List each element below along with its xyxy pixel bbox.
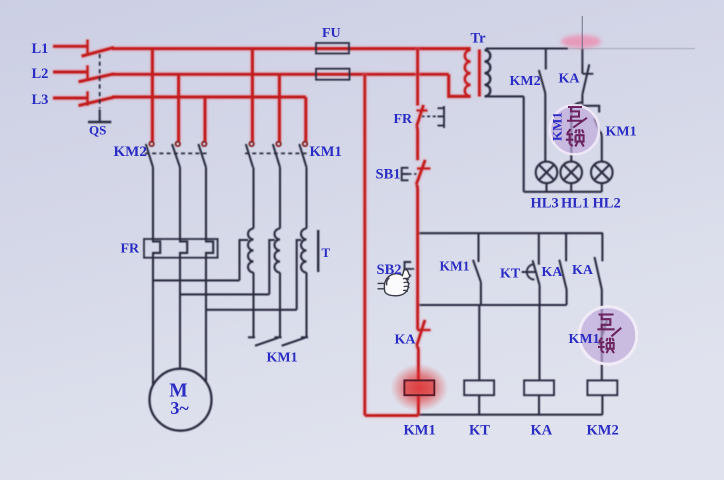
tap 1 riser	[240, 240, 249, 280]
KM1 star contact tick 2	[275, 336, 282, 338]
svg-text:KM1: KM1	[550, 112, 565, 141]
wire tap1 to lead U	[153, 279, 240, 281]
svg-text:KT: KT	[469, 423, 490, 439]
SB1 button cap	[402, 168, 409, 181]
QS pole L1 tick	[86, 40, 89, 55]
wire tap2 to lead V	[180, 293, 269, 295]
rung bus A	[418, 232, 603, 234]
control rail left from L2	[363, 74, 366, 415]
QS blade L2	[79, 74, 115, 82]
KT lower wire	[539, 285, 541, 305]
svg-text:HL2: HL2	[593, 196, 621, 212]
wire drop L2 to KM2 pole 2	[177, 74, 180, 141]
contactor KM1 main blade 2	[273, 144, 280, 167]
coil KA body	[524, 380, 554, 395]
wire KM2 pole2 to FR	[179, 167, 181, 239]
artifact faint bus line	[568, 48, 695, 50]
svg-text:T: T	[322, 245, 331, 260]
wire KM1 pole3 to coil T3	[305, 167, 307, 228]
KT blade	[533, 260, 540, 285]
FR NC contact tick	[417, 109, 428, 111]
svg-text:KM1: KM1	[310, 144, 342, 160]
svg-text:FU: FU	[322, 26, 341, 41]
QS handle bar	[88, 121, 111, 123]
artifact vertical line	[581, 16, 583, 65]
svg-text:KM1: KM1	[569, 332, 600, 347]
contact KA lamp branch upper	[581, 49, 583, 74]
coil KT bottom lead	[478, 395, 480, 415]
svg-text:SB1: SB1	[376, 167, 401, 183]
KT coil feed	[478, 305, 480, 380]
svg-text:KM2: KM2	[114, 144, 147, 160]
motor M circle	[150, 369, 212, 431]
contactor KM1 main blade 1	[246, 144, 253, 167]
svg-text:3~: 3~	[170, 398, 189, 418]
FR heater element 1	[153, 239, 160, 258]
QS pole L2 tick	[86, 65, 89, 80]
SB2 button cap	[405, 262, 412, 276]
KM1 coil bottom lead	[417, 395, 420, 415]
SB2 linkage dashes	[411, 268, 417, 270]
branch wire to KM1 NC lamp contact	[582, 106, 599, 113]
SB1 tick	[417, 167, 430, 169]
wire drop L1 to KM1 pole 1	[251, 49, 254, 142]
slash annotation 1	[573, 118, 587, 128]
KM1 NC lamp blade	[594, 118, 600, 133]
QS handle stem	[99, 110, 101, 123]
KT contact upper	[538, 233, 540, 265]
KM1 aux lower wire	[480, 282, 482, 305]
lamp HL2 bottom lead	[601, 183, 603, 192]
lamp HL1 bottom lead	[570, 183, 572, 192]
KM1 star contact tick 3	[301, 336, 308, 338]
svg-text:KA: KA	[531, 423, 553, 439]
KA coil feed	[538, 305, 540, 380]
KA lamp contact tick	[583, 73, 594, 75]
phase line L2	[53, 70, 88, 73]
KA lamp blade	[582, 64, 589, 94]
KA NC contact upper	[565, 233, 567, 261]
interlock circle 1	[550, 105, 599, 154]
hanzi suo interlock 2	[598, 338, 614, 354]
contact KM2 lamp branch upper	[545, 49, 547, 70]
svg-text:QS: QS	[89, 123, 106, 138]
Tr primary bottom wire	[449, 74, 471, 96]
FR trip actuator	[438, 106, 445, 128]
transformer Tr primary coil	[465, 50, 471, 96]
svg-text:KA: KA	[572, 263, 594, 278]
svg-text:KM1: KM1	[606, 125, 637, 140]
wire tap3 to lead W	[206, 309, 297, 311]
svg-text:KA: KA	[559, 72, 581, 87]
Tr core bar	[478, 50, 481, 97]
svg-text:KM1: KM1	[267, 351, 298, 366]
transformer Tr secondary coil	[485, 50, 491, 96]
rail FR to SB1	[415, 126, 419, 160]
KM1 aux blade	[473, 260, 481, 282]
KM2 lamp blade	[539, 70, 545, 92]
autotransformer T coil 3	[301, 229, 306, 273]
svg-text:L2: L2	[32, 66, 49, 82]
disconnect switch QS linkage	[99, 54, 101, 109]
KM2 linkage dashes	[145, 152, 208, 154]
autotransformer T coil 1	[248, 229, 253, 273]
QS blade L3	[79, 97, 115, 105]
FR trip linkage dashes	[422, 115, 438, 117]
KT delay symbol	[522, 264, 536, 279]
wire KM1 pole2 to coil T2	[279, 167, 281, 228]
KA NO blade	[595, 257, 602, 290]
contactor KM2 main blade 3	[198, 144, 206, 167]
wire drop L1 to KM2 pole 1	[151, 49, 154, 142]
hanzi suo interlock 1	[566, 129, 584, 146]
QS blade L1	[82, 47, 115, 56]
phase line L1	[53, 45, 88, 48]
svg-text:KM2: KM2	[587, 423, 619, 439]
FR heater element 3	[206, 239, 213, 258]
Tr secondary bottom wire	[486, 95, 524, 97]
wire KA NO to KM2 coil	[601, 290, 603, 381]
pushbutton hand icon	[378, 270, 410, 296]
wire KM1 pole1 to coil T1	[252, 167, 254, 228]
FR heater element 2	[180, 239, 187, 258]
svg-text:HL3: HL3	[531, 196, 559, 212]
interlock circle 2	[579, 307, 636, 364]
KA red blade	[417, 320, 425, 346]
L1 bus wire	[112, 47, 471, 50]
svg-text:L3: L3	[32, 92, 49, 108]
hanzi hu interlock 2	[597, 315, 614, 330]
thermal relay FR box	[144, 239, 218, 258]
tap 2 riser	[269, 240, 275, 294]
rail SB1 to SB2 to junction B	[417, 184, 418, 329]
L3 bus wire	[112, 95, 306, 98]
KA NC lower wire	[566, 290, 568, 306]
rung bus B	[418, 304, 567, 306]
KM2 pole terminal circles	[149, 142, 154, 147]
coil KM2 bottom lead	[601, 395, 603, 415]
rail KA to KM1 coil	[417, 346, 419, 381]
KM1 coil glow	[390, 364, 448, 412]
control rail right from L1	[416, 49, 419, 106]
svg-text:KM1: KM1	[404, 423, 436, 439]
hanzi hu interlock 1	[567, 107, 583, 121]
slash annotation 2	[611, 328, 621, 337]
svg-text:KM1: KM1	[440, 259, 470, 274]
wire drop L3 to KM2 pole 3	[203, 97, 206, 142]
coil KT body	[464, 380, 494, 395]
wire drop L3 to KM1 pole 3	[304, 97, 307, 142]
svg-text:L1: L1	[32, 41, 49, 57]
KM1 aux contact upper	[477, 233, 479, 262]
coil KA bottom lead	[538, 395, 540, 415]
artifact pink blob	[561, 35, 601, 48]
FR NC contact blade	[417, 105, 424, 126]
wire KM2 blade to HL3	[544, 92, 546, 162]
svg-text:FR: FR	[394, 112, 414, 127]
QS pole L3 tick	[86, 91, 89, 105]
KA red tick	[417, 329, 431, 331]
T core bar	[317, 230, 319, 272]
control bottom bus	[418, 414, 602, 416]
KM1 star blade 2	[282, 338, 305, 346]
lamp HL2	[591, 162, 613, 184]
svg-text:KA: KA	[542, 265, 564, 280]
lamp HL3 bottom lead	[545, 183, 547, 192]
lamp bottom bus	[524, 191, 602, 193]
fuse FU1 body	[316, 43, 349, 54]
KM1 interlock NC blade	[599, 320, 607, 345]
motor lead W	[205, 258, 207, 383]
KM1 pole terminal circles	[249, 142, 254, 147]
KA NC blade	[559, 260, 566, 290]
control rail bottom red wire	[365, 414, 419, 417]
wire KM2 pole3 to FR	[205, 167, 207, 239]
svg-text:SB2: SB2	[377, 262, 402, 278]
contactor KM1 main blade 3	[299, 144, 306, 167]
coil T1 bottom wire	[252, 273, 254, 338]
wire KM1 NC to HL2	[601, 132, 602, 162]
KM1 star blade 1	[255, 338, 278, 346]
motor lead U	[152, 258, 154, 386]
Tr secondary top bus	[486, 47, 568, 49]
wire KA blade down	[581, 94, 583, 104]
svg-text:FR: FR	[121, 242, 141, 257]
fuse FU2 body	[316, 69, 350, 80]
SB1 linkage dashes	[409, 173, 417, 175]
svg-text:KA: KA	[395, 333, 417, 348]
wire drop L2 to KM1 pole 2	[278, 74, 281, 141]
motor lead V	[179, 258, 181, 369]
autotransformer T coil 2	[275, 229, 281, 273]
coil KM1 body	[404, 380, 434, 395]
coil KM2 body	[587, 380, 617, 395]
contactor KM2 main blade 2	[172, 144, 180, 167]
lamp HL1	[560, 162, 582, 184]
SB1 blade	[416, 160, 425, 185]
contactor KM2 main blade 1	[146, 144, 153, 167]
svg-text:KT: KT	[500, 267, 521, 282]
wire KM2 pole1 to FR	[152, 167, 154, 239]
coil T3 bottom wire	[305, 273, 307, 338]
svg-text:Tr: Tr	[471, 31, 487, 47]
KM1 star contact tick 1	[248, 336, 255, 338]
wire jog to HL1	[571, 102, 582, 161]
svg-text:KM2: KM2	[510, 74, 541, 89]
L2 bus wire	[112, 73, 449, 76]
phase line L3	[53, 96, 88, 99]
coil T2 bottom wire	[279, 273, 281, 338]
lamp return rail	[523, 96, 525, 191]
lamp HL3	[536, 162, 558, 184]
tap 3 riser	[297, 240, 302, 310]
svg-text:HL1: HL1	[561, 196, 589, 212]
KA NO contact upper	[601, 233, 603, 261]
KM1 linkage dashes	[245, 152, 308, 154]
